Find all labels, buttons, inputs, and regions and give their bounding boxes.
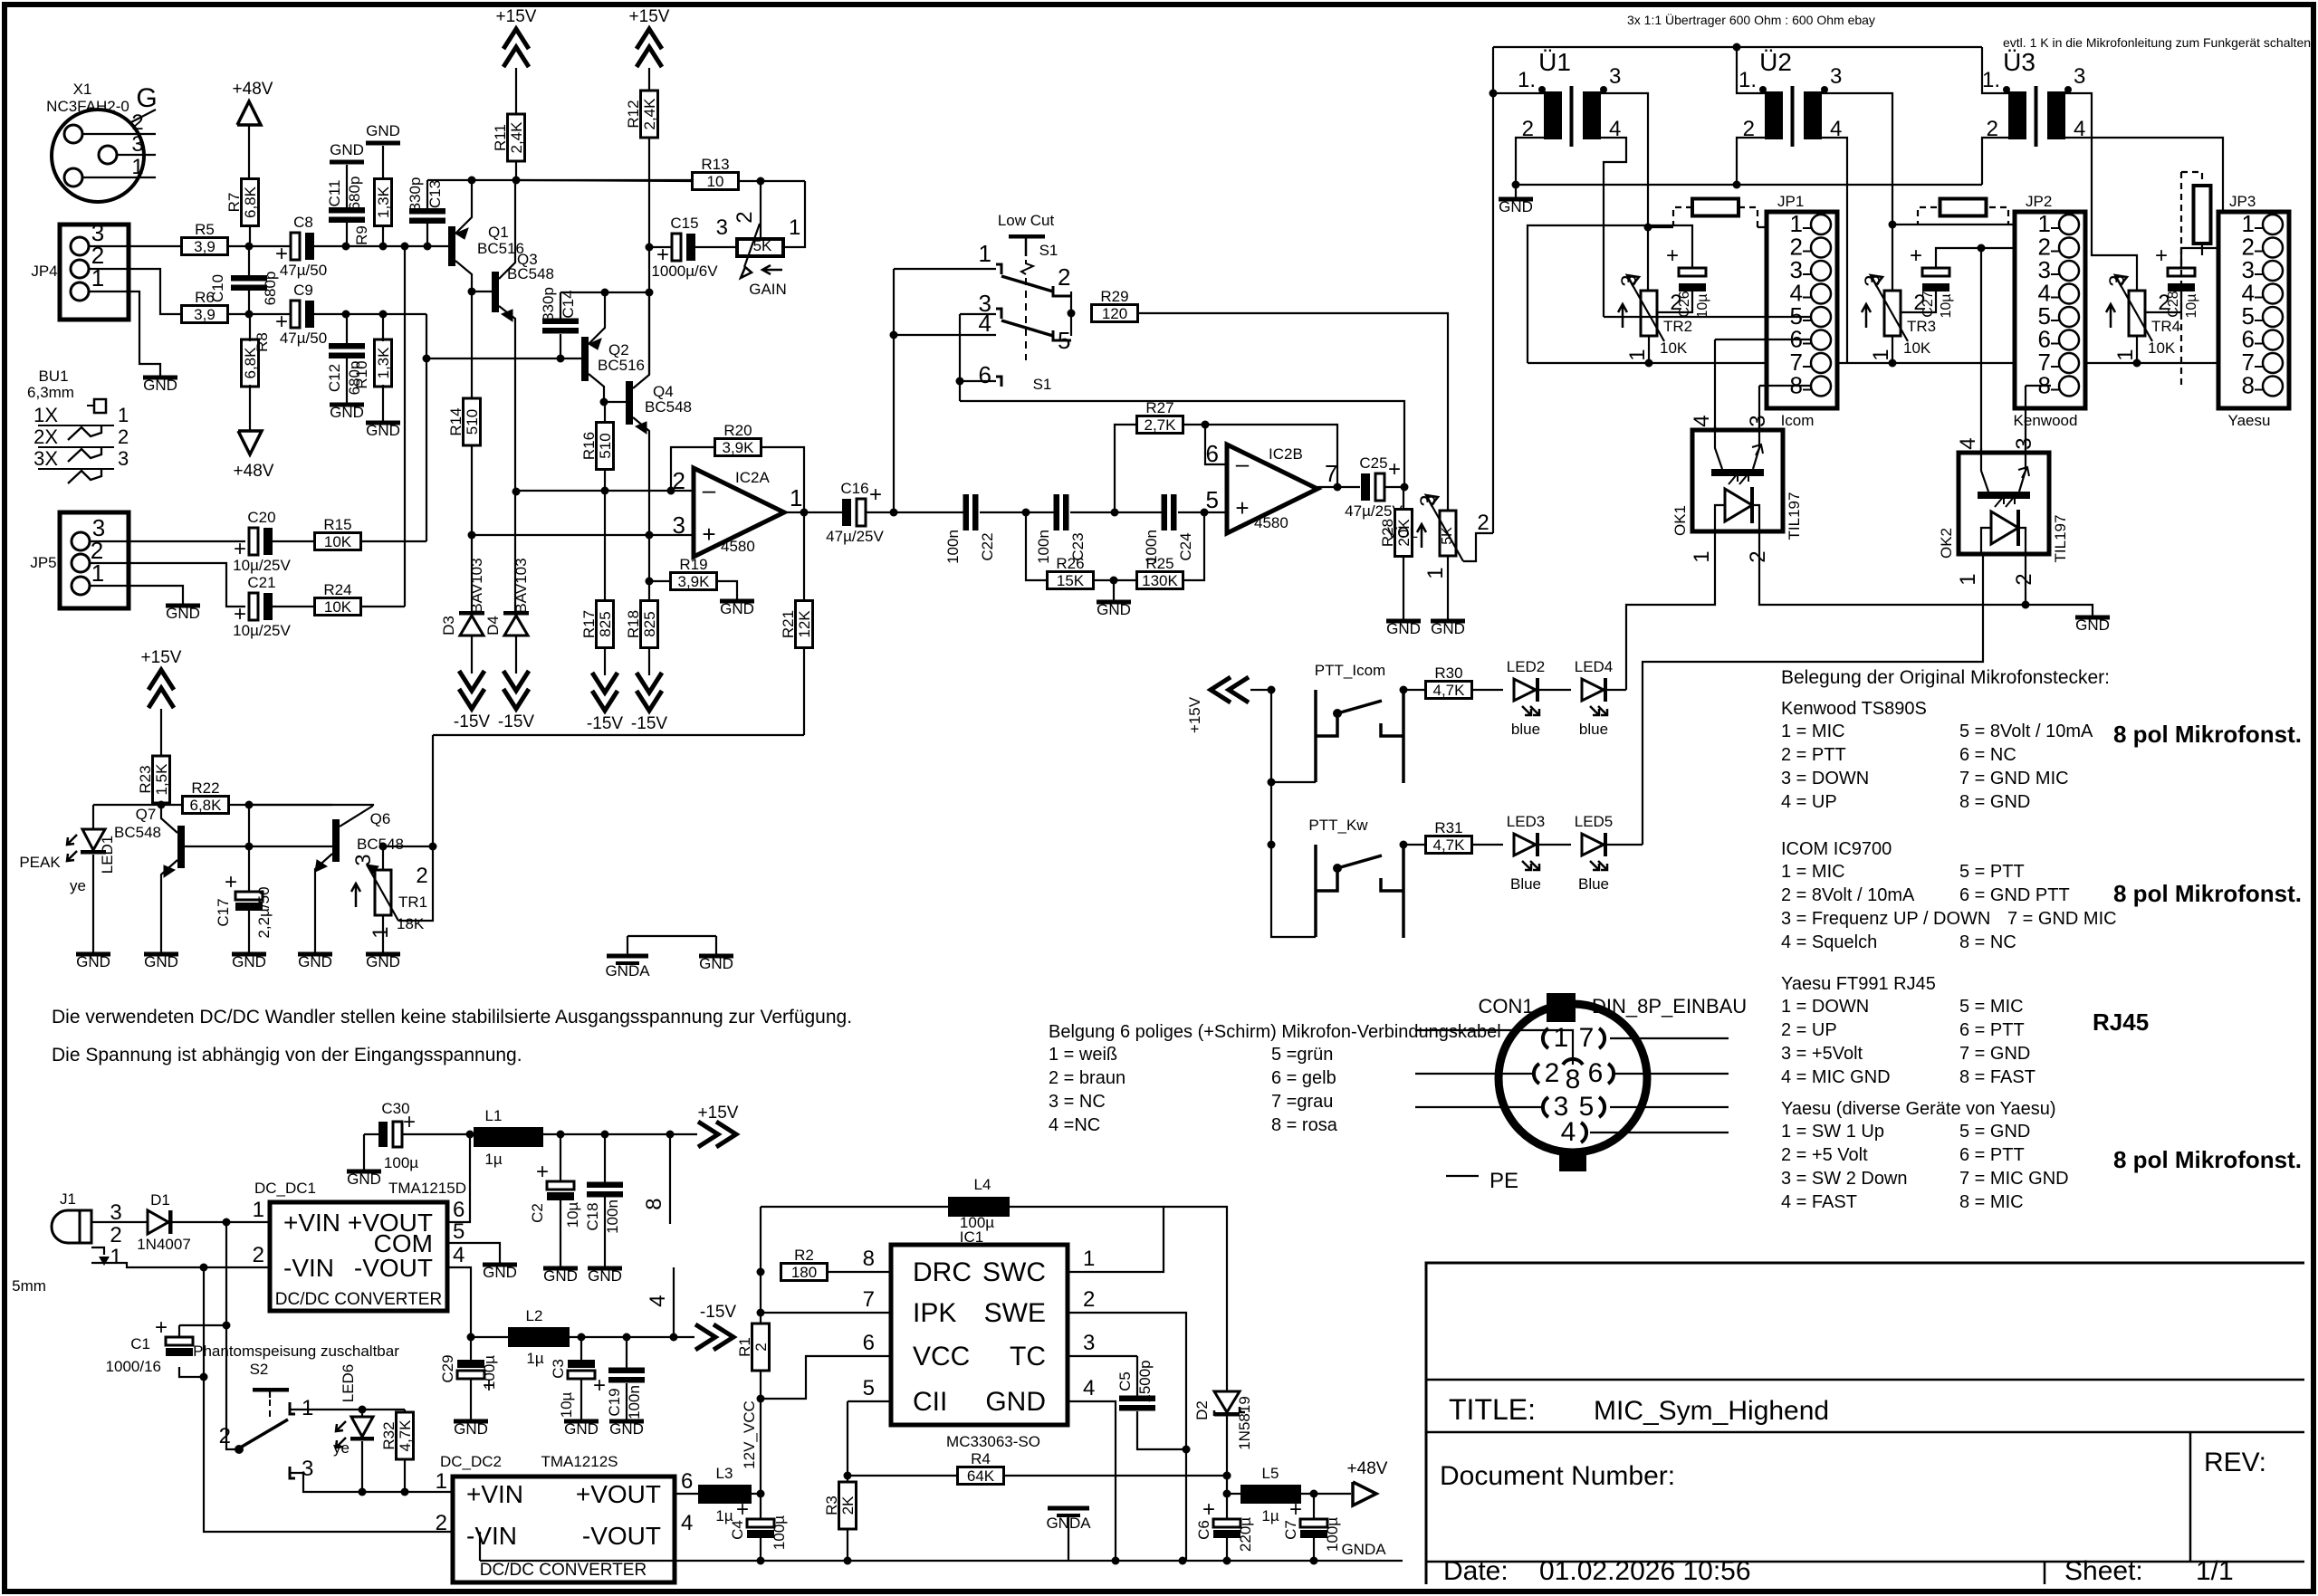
ground GND (jp5) — [166, 604, 200, 623]
junction — [646, 289, 654, 297]
svg-text:LED2: LED2 — [1507, 658, 1546, 675]
resistor R16 — [580, 423, 614, 470]
wire — [761, 1356, 891, 1399]
svg-text:100µ: 100µ — [481, 1355, 498, 1390]
wire — [1759, 531, 2026, 605]
wire — [515, 161, 517, 180]
capacitor C9 — [275, 282, 327, 347]
svg-text:C5: C5 — [1116, 1371, 1134, 1391]
wire — [1539, 1030, 1573, 1065]
svg-text:R25: R25 — [1145, 555, 1173, 572]
wire — [93, 804, 183, 806]
LED LED2 — [1507, 658, 1546, 738]
svg-text:8 = rosa: 8 = rosa — [1271, 1115, 1338, 1135]
wire — [273, 540, 314, 542]
wire — [426, 180, 428, 208]
svg-text:5: 5 — [1058, 327, 1070, 354]
svg-text:10µ/25V: 10µ/25V — [233, 622, 291, 639]
resistor R13 — [693, 156, 739, 190]
resistor R20 — [715, 422, 761, 456]
svg-text:1/1: 1/1 — [2196, 1556, 2234, 1586]
capacitor C5 — [1116, 1360, 1155, 1410]
wire — [361, 540, 426, 542]
power +15V — [141, 648, 182, 708]
wire — [1648, 226, 1673, 228]
wire — [204, 1267, 453, 1532]
svg-text:1: 1 — [118, 404, 129, 426]
wire — [560, 291, 649, 293]
wire — [1463, 533, 1493, 561]
wire — [604, 491, 606, 601]
wire — [179, 1367, 204, 1377]
ground GND (c2) — [543, 1266, 578, 1285]
label 12V_VCC — [741, 1400, 758, 1469]
svg-text:GND: GND — [347, 1171, 381, 1188]
wire — [1137, 1411, 1186, 1449]
wire — [471, 445, 473, 535]
svg-text:5 = 8Volt / 10mA: 5 = 8Volt / 10mA — [1959, 722, 2093, 741]
svg-text:100µ: 100µ — [1324, 1517, 1341, 1552]
svg-text:C19: C19 — [606, 1388, 623, 1416]
svg-text:6 = GND PTT: 6 = GND PTT — [1959, 885, 2070, 905]
svg-text:8: 8 — [1566, 1065, 1581, 1094]
wire — [129, 110, 156, 123]
resistor R23 — [137, 756, 170, 803]
net stub CON1 pin 8 — [642, 1134, 670, 1224]
svg-text:+VOUT: +VOUT — [576, 1480, 661, 1508]
junction — [359, 1406, 367, 1414]
junction — [646, 244, 654, 252]
capacitor C6 — [1202, 1497, 1240, 1538]
svg-text:1: 1 — [369, 926, 393, 938]
svg-text:CON1: CON1 — [1478, 995, 1533, 1018]
svg-text:1: 1 — [436, 1469, 447, 1494]
switch S2 (Phantomspeisung) — [193, 1343, 399, 1481]
transistor Q2 — [581, 292, 645, 402]
svg-text:–: – — [1236, 450, 1250, 477]
svg-text:4 = FAST: 4 = FAST — [1781, 1192, 1857, 1212]
svg-text:GND: GND — [298, 953, 332, 970]
svg-text:C24: C24 — [1177, 532, 1194, 560]
wire — [1673, 207, 1692, 225]
svg-text:CII: CII — [913, 1387, 947, 1417]
wire — [1715, 339, 1811, 340]
wire — [2180, 172, 2182, 387]
svg-text:R19: R19 — [679, 556, 707, 573]
svg-text:ye: ye — [70, 877, 86, 894]
wire — [1003, 1475, 1227, 1477]
svg-text:C17: C17 — [215, 898, 232, 926]
wire — [470, 1379, 472, 1419]
svg-text:1,3K: 1,3K — [375, 186, 392, 218]
table Yaesu FT991 — [1781, 974, 2035, 1087]
wire — [363, 1134, 365, 1170]
svg-text:C22: C22 — [979, 532, 996, 560]
svg-text:+15V: +15V — [629, 7, 670, 26]
wire — [248, 846, 250, 892]
svg-text:MC33063-SO: MC33063-SO — [946, 1433, 1040, 1450]
wire — [479, 1532, 481, 1561]
wire — [2065, 138, 2269, 387]
wire — [179, 1324, 226, 1326]
wire — [1515, 185, 1517, 197]
ground GND (u1) — [1499, 197, 1533, 216]
svg-text:510: 510 — [464, 409, 481, 435]
wire — [426, 314, 427, 358]
svg-text:GND: GND — [454, 1420, 488, 1438]
junction — [890, 331, 898, 339]
svg-text:3: 3 — [2105, 274, 2130, 286]
svg-text:6: 6 — [1588, 1058, 1604, 1088]
svg-text:1: 1 — [1956, 573, 1980, 585]
junction — [245, 801, 254, 809]
label R9 — [353, 225, 370, 245]
wire — [89, 269, 182, 314]
svg-text:R4: R4 — [971, 1450, 991, 1467]
svg-text:3: 3 — [1416, 494, 1441, 506]
note Belegung header — [1781, 667, 2110, 688]
svg-text:blue: blue — [1579, 721, 1608, 738]
svg-text:3: 3 — [2012, 437, 2036, 449]
resistor R15 — [315, 516, 361, 550]
svg-text:10K: 10K — [324, 598, 352, 616]
svg-text:Die Spannung ist abhängig von: Die Spannung ist abhängig von der Eingan… — [52, 1045, 522, 1066]
wire — [1068, 1401, 1116, 1561]
wire — [1648, 336, 1650, 363]
svg-text:JP5: JP5 — [30, 554, 56, 571]
wire — [894, 268, 996, 270]
svg-text:Icom: Icom — [1781, 412, 1815, 429]
svg-text:X1: X1 — [73, 81, 92, 98]
svg-text:C9: C9 — [293, 282, 313, 299]
transformer Ü3 — [1982, 48, 2085, 147]
wire — [1936, 248, 2051, 268]
label C1 — [106, 1335, 161, 1375]
svg-text:6: 6 — [979, 361, 991, 388]
svg-text:3,9K: 3,9K — [723, 439, 755, 456]
resistor R8 — [242, 339, 260, 387]
svg-text:15K: 15K — [1057, 572, 1085, 589]
svg-text:Phantomspeisung zuschaltbar: Phantomspeisung zuschaltbar — [193, 1343, 399, 1360]
svg-text:C14: C14 — [560, 290, 577, 318]
wire — [426, 358, 427, 541]
svg-text:100n: 100n — [1035, 530, 1052, 564]
junction — [757, 177, 765, 186]
svg-text:5: 5 — [1206, 486, 1219, 513]
wire — [249, 846, 332, 847]
svg-text:680p: 680p — [262, 272, 279, 306]
note DC/DC — [52, 1007, 852, 1066]
svg-text:+48V: +48V — [1347, 1459, 1388, 1478]
svg-text:3: 3 — [1830, 64, 1842, 89]
svg-text:S1: S1 — [1039, 242, 1058, 259]
svg-text:1X: 1X — [34, 404, 58, 426]
svg-text:+: + — [1289, 1497, 1302, 1522]
junction — [600, 398, 608, 406]
wire — [226, 1325, 237, 1449]
wire — [248, 125, 250, 180]
inductor L1 — [474, 1107, 543, 1168]
svg-text:GND: GND — [76, 953, 110, 970]
wire — [648, 535, 650, 601]
wire — [248, 246, 250, 275]
wire — [1918, 207, 1937, 225]
wire — [471, 636, 473, 674]
junction — [342, 243, 350, 251]
wire — [1610, 1037, 1729, 1039]
resistor R18 — [625, 601, 658, 648]
svg-text:3: 3 — [118, 447, 129, 470]
LED LED4 — [1575, 658, 1614, 738]
svg-text:-VIN: -VIN — [283, 1254, 334, 1282]
wire — [847, 1529, 848, 1561]
svg-text:ICOM IC9700: ICOM IC9700 — [1781, 839, 1892, 859]
svg-text:C13: C13 — [426, 180, 444, 208]
svg-text:GND: GND — [232, 953, 266, 970]
wire — [580, 1337, 582, 1363]
wire — [273, 606, 314, 607]
junction — [423, 355, 431, 363]
junction — [1183, 1446, 1191, 1454]
svg-text:C8: C8 — [293, 214, 313, 231]
wire — [346, 314, 348, 343]
svg-text:8 = FAST: 8 = FAST — [1959, 1067, 2035, 1087]
svg-text:1000µ/6V: 1000µ/6V — [651, 263, 718, 280]
svg-text:C4: C4 — [729, 1520, 746, 1540]
junction — [757, 1309, 765, 1317]
junction — [578, 1333, 586, 1342]
wire — [1068, 1516, 1069, 1561]
ground GND (q7) — [144, 952, 178, 971]
svg-text:BC548: BC548 — [114, 824, 161, 841]
wire — [2181, 248, 2269, 268]
svg-text:1µ: 1µ — [526, 1350, 543, 1367]
resistor R24 — [315, 581, 361, 616]
ground GND (r28) — [1386, 619, 1421, 638]
wire — [626, 1383, 627, 1419]
svg-text:2: 2 — [1083, 1287, 1095, 1312]
wire — [2201, 244, 2203, 255]
svg-text:2: 2 — [733, 211, 757, 223]
junction — [1268, 686, 1276, 694]
svg-text:TIL197: TIL197 — [2052, 515, 2069, 563]
svg-text:MIC_Sym_Highend: MIC_Sym_Highend — [1594, 1396, 1829, 1426]
optocoupler OK2 — [1938, 437, 2069, 585]
svg-text:C26: C26 — [1677, 291, 1692, 317]
wire — [893, 269, 895, 512]
svg-text:1000/16: 1000/16 — [106, 1358, 161, 1375]
resistor R19 — [671, 556, 717, 590]
wire — [1403, 689, 1426, 691]
wire — [228, 245, 291, 247]
wire — [1415, 1073, 1534, 1075]
svg-text:R12: R12 — [625, 100, 642, 128]
svg-text:GNDA: GNDA — [605, 962, 650, 980]
svg-text:R18: R18 — [625, 610, 642, 638]
wire — [404, 246, 406, 607]
svg-text:6,3mm: 6,3mm — [27, 384, 74, 401]
power +15V — [629, 7, 670, 67]
svg-text:2 = 8Volt / 10mA: 2 = 8Volt / 10mA — [1781, 885, 1915, 905]
diode D2 1N5819 — [1193, 1391, 1253, 1450]
svg-text:64K: 64K — [967, 1467, 995, 1485]
svg-text:1.: 1. — [1518, 68, 1536, 92]
wire — [249, 805, 373, 806]
svg-text:PTT_Icom: PTT_Icom — [1315, 662, 1385, 679]
svg-text:3 = NC: 3 = NC — [1049, 1092, 1106, 1112]
junction — [401, 1488, 409, 1496]
ground GND (c3) — [564, 1419, 599, 1438]
svg-text:3X: 3X — [34, 447, 58, 470]
svg-text:OK2: OK2 — [1938, 528, 1955, 559]
wire — [1313, 1494, 1315, 1520]
svg-text:LED6: LED6 — [340, 1364, 357, 1403]
svg-text:10K: 10K — [1903, 339, 1931, 357]
svg-text:4: 4 — [1561, 1117, 1576, 1147]
label R8 — [254, 332, 271, 352]
wire — [382, 385, 384, 421]
wire — [1094, 579, 1136, 581]
svg-text:2: 2 — [416, 864, 427, 888]
svg-text:-VIN: -VIN — [466, 1522, 517, 1550]
resistor R10 — [375, 339, 393, 387]
svg-text:R1: R1 — [736, 1337, 753, 1357]
wire — [185, 846, 249, 847]
wire — [784, 511, 844, 513]
svg-text:+15V: +15V — [141, 648, 182, 667]
junction — [468, 177, 476, 185]
ground GND (led1) — [76, 952, 110, 971]
resistor R5 — [182, 221, 228, 255]
capacitor C28 — [2155, 244, 2199, 319]
svg-text:+VIN: +VIN — [283, 1209, 340, 1237]
svg-text:10K: 10K — [1660, 339, 1688, 357]
junction — [379, 843, 388, 851]
svg-text:R31: R31 — [1434, 819, 1462, 836]
wire — [89, 291, 160, 376]
wire — [560, 1134, 561, 1182]
svg-text:1 = SW 1 Up: 1 = SW 1 Up — [1781, 1122, 1884, 1142]
svg-text:R26: R26 — [1056, 555, 1084, 572]
svg-text:3 = +5Volt: 3 = +5Volt — [1781, 1044, 1863, 1064]
svg-text:3 = SW 2 Down: 3 = SW 2 Down — [1781, 1169, 1908, 1189]
wire — [1403, 487, 1404, 510]
svg-text:Ü3: Ü3 — [2003, 48, 2035, 76]
svg-text:R16: R16 — [580, 432, 598, 460]
svg-text:R15: R15 — [323, 516, 351, 533]
svg-text:4: 4 — [1690, 415, 1714, 426]
wire — [1115, 425, 1136, 512]
svg-text:8 = MIC: 8 = MIC — [1959, 1192, 2024, 1212]
switch S1 pole 4-5 — [979, 290, 1071, 354]
junction — [223, 1322, 231, 1330]
svg-text:2,4K: 2,4K — [508, 121, 525, 154]
svg-text:LED4: LED4 — [1575, 658, 1614, 675]
resistor R17 — [580, 601, 614, 648]
svg-text:GND: GND — [330, 141, 364, 158]
resistor R26 — [1048, 555, 1094, 589]
wire — [1226, 1494, 1228, 1520]
wire — [1989, 207, 2008, 225]
svg-text:100µ: 100µ — [384, 1154, 418, 1171]
svg-text:2,2µ/50: 2,2µ/50 — [255, 886, 273, 938]
svg-text:+48V: +48V — [234, 462, 274, 481]
svg-text:+: + — [536, 1160, 549, 1184]
svg-text:GND: GND — [366, 122, 400, 139]
wire — [1714, 339, 1716, 430]
svg-text:5 = MIC: 5 = MIC — [1959, 997, 2024, 1017]
pin labels IC2B — [1206, 440, 1338, 521]
svg-text:-15V: -15V — [700, 1303, 736, 1322]
capacitor C27 — [1910, 244, 1954, 319]
wire — [91, 1221, 148, 1223]
resistor R32 — [380, 1412, 414, 1459]
svg-text:8 pol Mikrofonst.: 8 pol Mikrofonst. — [2113, 880, 2302, 907]
capacitor C8 — [275, 214, 327, 279]
junction — [200, 1373, 208, 1381]
junction — [1733, 43, 1741, 52]
junction — [342, 311, 350, 319]
ground GND (c12) — [330, 403, 364, 422]
capacitor C30 — [378, 1100, 418, 1171]
wire — [1205, 425, 1337, 487]
junction — [1111, 509, 1119, 517]
svg-text:2: 2 — [436, 1511, 447, 1535]
wire — [1068, 1355, 1137, 1357]
trimmer TR4 — [2105, 274, 2180, 360]
wire — [178, 1325, 180, 1338]
wire — [1758, 226, 1811, 228]
svg-text:5K: 5K — [753, 237, 772, 254]
junction — [1202, 421, 1210, 429]
svg-text:LED5: LED5 — [1575, 813, 1614, 830]
svg-text:R27: R27 — [1145, 399, 1173, 416]
table Verbindungskabel — [1049, 1022, 1501, 1135]
wire — [847, 1401, 848, 1482]
wire — [472, 534, 694, 536]
svg-text:7: 7 — [1325, 460, 1337, 487]
wire — [1178, 511, 1227, 513]
junction — [1733, 181, 1741, 189]
svg-text:DC/DC CONVERTER: DC/DC CONVERTER — [275, 1290, 442, 1309]
wire — [604, 402, 606, 424]
svg-text:C2: C2 — [529, 1203, 546, 1223]
wire — [516, 490, 694, 492]
svg-text:+: + — [2155, 244, 2168, 268]
svg-text:C21: C21 — [247, 574, 275, 591]
capacitor C26 — [1666, 244, 1710, 319]
svg-text:OK1: OK1 — [1671, 505, 1689, 536]
wire — [1657, 291, 1692, 312]
capacitor C24 — [1143, 494, 1194, 564]
trimmer VOL 5K — [1387, 494, 1489, 578]
power -15V right — [695, 1303, 736, 1350]
svg-text:1 = MIC: 1 = MIC — [1781, 862, 1845, 882]
wire — [1982, 138, 2008, 185]
svg-text:4: 4 — [646, 1295, 670, 1306]
svg-text:100µ: 100µ — [771, 1515, 788, 1550]
wire — [346, 165, 348, 207]
wire — [1271, 781, 1316, 783]
dcdc DC_DC2 TMA1212S — [436, 1453, 694, 1582]
junction — [1489, 90, 1498, 98]
wire — [1759, 385, 1811, 387]
svg-text:2 = braun: 2 = braun — [1049, 1068, 1125, 1088]
wire — [90, 540, 245, 542]
svg-text:GND: GND — [1499, 198, 1533, 215]
connector JP4 — [31, 219, 129, 320]
svg-text:8 pol Mikrofonst.: 8 pol Mikrofonst. — [2113, 1146, 2302, 1173]
